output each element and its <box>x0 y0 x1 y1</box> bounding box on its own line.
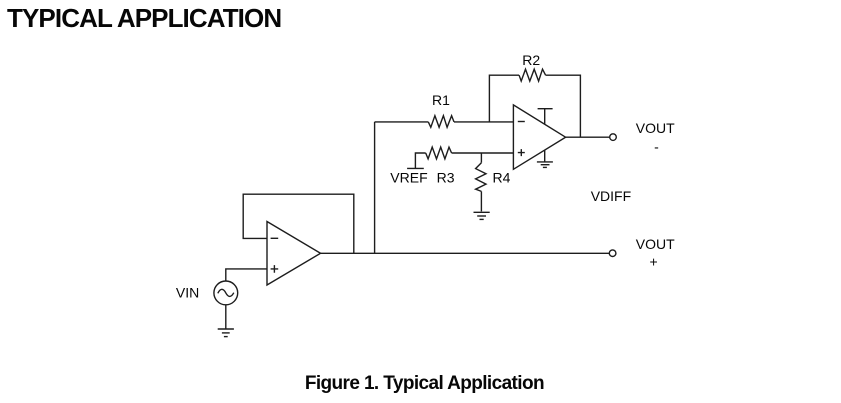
VREF rail bar <box>407 167 424 169</box>
wire: R3 right lead to U2 + input <box>452 152 514 154</box>
voltage source VIN <box>214 281 238 305</box>
wire: R4 top lead <box>480 153 482 163</box>
ground (U2 V-) <box>537 150 553 167</box>
svg-text:Figure 1. Typical Application: Figure 1. Typical Application <box>305 373 544 394</box>
svg-text:+: + <box>650 253 658 269</box>
svg-text:VDIFF: VDIFF <box>591 188 631 204</box>
svg-text:VOUT: VOUT <box>636 120 675 136</box>
wire: VREF terminal and R3 left lead <box>415 153 425 168</box>
resistor R3 <box>426 147 452 159</box>
svg-text:R3: R3 <box>437 170 455 186</box>
supply rail (U2 V+) <box>538 109 553 125</box>
wire: R2 feedback loop left <box>489 75 519 122</box>
svg-text:-: - <box>654 138 659 154</box>
svg-text:R2: R2 <box>522 52 540 68</box>
svg-text:VREF: VREF <box>390 170 427 186</box>
resistor R2 <box>519 69 546 81</box>
ground (R4) <box>474 212 490 219</box>
wire: R1 left lead <box>375 121 429 123</box>
wire: U1 feedback loop <box>243 194 354 253</box>
op-amp U1 <box>267 222 321 286</box>
wire: branch up from output node to R1 <box>374 122 376 253</box>
svg-text:TYPICAL APPLICATION: TYPICAL APPLICATION <box>7 3 281 33</box>
terminal VOUT+ <box>609 250 616 257</box>
wire: R1 right lead to U2 - input <box>454 121 513 123</box>
ground (VIN source) <box>218 329 234 337</box>
wire: R4 bottom lead <box>480 191 482 211</box>
wire: VIN to U1 + input <box>226 269 267 281</box>
svg-text:R4: R4 <box>493 170 511 186</box>
op-amp U2 <box>513 105 565 169</box>
resistor R4 <box>476 163 486 192</box>
resistor R1 <box>428 116 454 128</box>
wire: R2 feedback loop right <box>546 75 581 137</box>
svg-text:VIN: VIN <box>176 285 199 301</box>
terminal VOUT- <box>610 134 617 141</box>
svg-text:R1: R1 <box>432 92 450 108</box>
wire: U1 output to VOUT+ terminal <box>321 252 610 254</box>
wire: U2 output to VOUT- terminal <box>566 136 610 138</box>
wire: VIN source to ground <box>225 305 227 329</box>
svg-text:VOUT: VOUT <box>636 236 675 252</box>
